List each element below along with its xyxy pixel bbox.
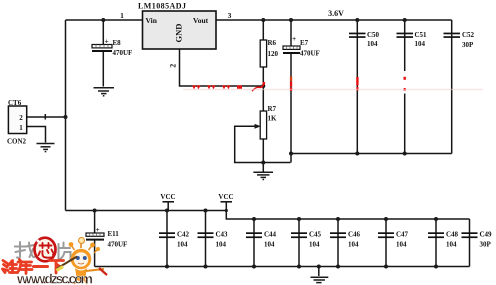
svg-text:3: 3: [228, 11, 232, 20]
svg-text:E8: E8: [113, 39, 122, 47]
svg-text:470UF: 470UF: [113, 49, 133, 57]
svg-text:104: 104: [177, 241, 188, 249]
svg-text:3.6V: 3.6V: [328, 9, 344, 18]
svg-text:C42: C42: [177, 231, 190, 239]
svg-text:104: 104: [309, 241, 320, 249]
svg-text:E7: E7: [300, 39, 309, 47]
svg-text:C48: C48: [446, 231, 459, 239]
svg-text:+: +: [105, 37, 109, 46]
svg-text:C52: C52: [462, 31, 475, 39]
svg-text:104: 104: [415, 40, 426, 48]
svg-text:1: 1: [19, 124, 23, 132]
svg-text:104: 104: [216, 241, 227, 249]
svg-text:C47: C47: [396, 231, 409, 239]
svg-text:GND: GND: [174, 24, 184, 43]
svg-text:+: +: [292, 34, 296, 43]
svg-text:LM1085ADJ: LM1085ADJ: [138, 2, 186, 11]
svg-text:470UF: 470UF: [300, 50, 320, 58]
svg-text:C46: C46: [348, 231, 361, 239]
svg-text:2: 2: [19, 114, 23, 122]
svg-text:104: 104: [396, 241, 407, 249]
svg-text:30P: 30P: [462, 41, 474, 49]
svg-text:+: +: [96, 225, 100, 234]
svg-text:C45: C45: [309, 231, 322, 239]
svg-text:VCC: VCC: [218, 193, 233, 201]
svg-text:C44: C44: [264, 231, 277, 239]
svg-text:CT6: CT6: [8, 99, 22, 107]
svg-text:R7: R7: [268, 105, 277, 113]
svg-text:Vin: Vin: [146, 16, 158, 25]
svg-text:30P: 30P: [480, 241, 492, 249]
svg-text:www.dzsc.com: www.dzsc.com: [16, 271, 93, 285]
svg-text:R6: R6: [268, 39, 277, 47]
svg-text:E11: E11: [108, 230, 120, 238]
svg-text:C49: C49: [480, 231, 493, 239]
svg-text:VCC: VCC: [160, 193, 175, 201]
svg-text:104: 104: [348, 241, 359, 249]
svg-text:104: 104: [264, 241, 275, 249]
svg-text:C43: C43: [216, 231, 229, 239]
svg-text:C50: C50: [367, 31, 380, 39]
svg-text:120: 120: [268, 50, 279, 58]
svg-text:2: 2: [169, 64, 178, 68]
svg-text:CON2: CON2: [7, 138, 27, 146]
svg-text:104: 104: [446, 241, 457, 249]
svg-text:470UF: 470UF: [108, 241, 128, 249]
svg-text:C51: C51: [415, 31, 428, 39]
svg-text:104: 104: [367, 40, 378, 48]
svg-text:1: 1: [120, 11, 124, 20]
svg-text:Vout: Vout: [193, 16, 209, 25]
svg-text:1K: 1K: [268, 115, 278, 123]
